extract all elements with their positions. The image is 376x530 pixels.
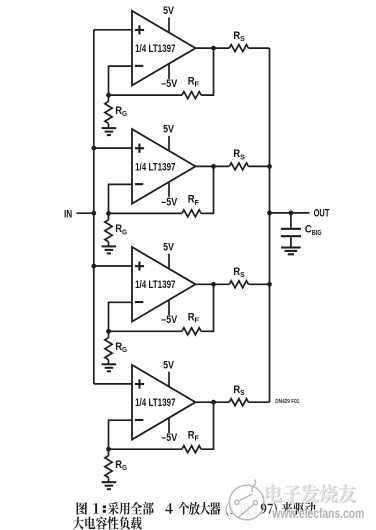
-5V supply pin of U1A bbox=[161, 63, 178, 90]
wire: feedback node up to -input of U1B bbox=[109, 184, 133, 213]
wire: RS2 to output bus bbox=[248, 165, 269, 167]
svg-text:F: F bbox=[195, 434, 200, 443]
ground: C_BIG bbox=[281, 248, 301, 255]
label: figure caption 图1 bbox=[73, 502, 258, 530]
-5V supply pin of U1C bbox=[161, 300, 178, 327]
watermark: 电子发烧友 text bbox=[265, 483, 357, 503]
svg-text:OUT: OUT bbox=[314, 207, 330, 219]
node: U1B output / feedback junction bbox=[211, 164, 216, 169]
5V supply pin of U1B bbox=[163, 124, 174, 152]
svg-text:–5V: –5V bbox=[161, 314, 178, 326]
svg-text:S: S bbox=[240, 270, 245, 279]
node: bus junction at U1B +input bbox=[91, 146, 96, 151]
node: bus junction at RS2 bbox=[267, 164, 272, 169]
svg-text:S: S bbox=[240, 34, 245, 43]
resistor RS3 bbox=[229, 266, 248, 288]
watermark: www.elecfans.com bbox=[271, 505, 365, 521]
op-amp U1C (1/4 LT1397) bbox=[132, 247, 196, 322]
watermark: white fade behind logo bbox=[221, 496, 266, 513]
svg-text:G: G bbox=[122, 227, 127, 236]
-5V supply pin of U1D bbox=[161, 418, 178, 445]
wire: feedback from U1C output down to RF3 bbox=[201, 284, 213, 331]
wire: U1D output to RS4 bbox=[196, 401, 230, 403]
resistor RG3 bbox=[105, 331, 127, 364]
svg-text:F: F bbox=[195, 80, 200, 89]
node: IN junction on input bus bbox=[91, 211, 96, 216]
svg-text:5V: 5V bbox=[163, 359, 174, 371]
svg-text:G: G bbox=[122, 109, 127, 118]
wire: OUT lead bbox=[270, 212, 310, 214]
wire: RF2 to feedback node bbox=[109, 212, 183, 214]
wire: input bus (left vertical) bbox=[93, 30, 95, 384]
svg-text:DN429 F01: DN429 F01 bbox=[275, 399, 299, 405]
svg-text:–5V: –5V bbox=[161, 78, 178, 90]
wire: feedback from U1B output down to RF2 bbox=[201, 166, 213, 213]
wire: feedback node up to -input of U1D bbox=[109, 420, 133, 449]
node: bus junction at U1C +input bbox=[91, 264, 96, 269]
wire: U1A output to RS1 bbox=[196, 47, 230, 49]
node: C_BIG tap junction bbox=[289, 211, 294, 216]
wire: feedback from U1A output down to RF1 bbox=[201, 48, 213, 95]
node: feedback junction of U1D bbox=[106, 447, 111, 452]
wire: left bus to +input of U1A bbox=[94, 29, 132, 31]
resistor RF1 bbox=[182, 75, 201, 98]
svg-text:F: F bbox=[195, 198, 200, 207]
resistor RS4 bbox=[229, 384, 248, 406]
svg-text:G: G bbox=[122, 463, 127, 472]
svg-text:S: S bbox=[240, 152, 245, 161]
5V supply pin of U1C bbox=[163, 241, 174, 269]
wire: left bus to +input of U1B bbox=[94, 147, 132, 149]
resistor RS1 bbox=[229, 30, 248, 52]
svg-text:–5V: –5V bbox=[161, 432, 178, 444]
node: feedback junction of U1B bbox=[106, 211, 111, 216]
node: U1D output / feedback junction bbox=[211, 400, 216, 405]
ground: RG2 bbox=[102, 246, 117, 253]
5V supply pin of U1A bbox=[163, 5, 174, 33]
op-amp U1D (1/4 LT1397) bbox=[132, 365, 196, 440]
svg-text:5V: 5V bbox=[163, 5, 174, 17]
resistor RG1 bbox=[105, 95, 127, 128]
node: bus junction at RS3 bbox=[267, 282, 272, 287]
node: U1A output / feedback junction bbox=[211, 46, 216, 51]
node: U1C output / feedback junction bbox=[211, 282, 216, 287]
svg-text:www.elecfans.com: www.elecfans.com bbox=[272, 506, 365, 521]
svg-text:5V: 5V bbox=[163, 241, 174, 253]
label: figure caption tail 97) 来驱动 bbox=[261, 502, 316, 516]
resistor RF2 bbox=[182, 194, 201, 217]
wire: output bus (right vertical) bbox=[269, 48, 271, 402]
svg-text:G: G bbox=[122, 345, 127, 354]
svg-text:5V: 5V bbox=[163, 124, 174, 136]
svg-text:IN: IN bbox=[64, 208, 72, 220]
watermark: elecfans logo circle bbox=[229, 480, 264, 520]
ground: RG3 bbox=[102, 364, 117, 371]
wire: U1B output to RS2 bbox=[196, 165, 230, 167]
svg-text:F: F bbox=[195, 316, 200, 325]
wire: feedback node up to -input of U1C bbox=[109, 302, 133, 331]
svg-text:BIG: BIG bbox=[312, 228, 322, 237]
-5V supply pin of U1B bbox=[161, 182, 178, 209]
svg-text:–5V: –5V bbox=[161, 196, 178, 208]
node: OUT junction on output bus bbox=[267, 211, 272, 216]
node: feedback junction of U1C bbox=[106, 329, 111, 334]
resistor RF4 bbox=[182, 429, 201, 452]
ground: RG4 bbox=[102, 482, 117, 489]
resistor RG4 bbox=[105, 449, 127, 482]
svg-text:1/4 LT1397: 1/4 LT1397 bbox=[135, 279, 175, 291]
5V supply pin of U1D bbox=[163, 359, 174, 387]
wire: RS3 to output bus bbox=[248, 283, 269, 285]
wire: IN lead bbox=[77, 212, 94, 214]
capacitor C_BIG bbox=[281, 213, 322, 247]
wire: RF4 to feedback node bbox=[109, 448, 183, 450]
svg-text:1/4 LT1397: 1/4 LT1397 bbox=[135, 43, 175, 55]
op-amp U1B (1/4 LT1397) bbox=[132, 129, 196, 204]
wire: feedback from U1D output down to RF4 bbox=[201, 402, 213, 449]
wire: RS1 to output bus bbox=[248, 47, 269, 49]
wire: RS4 to output bus bbox=[248, 401, 269, 403]
svg-text:S: S bbox=[240, 388, 245, 397]
wire: left bus to +input of U1D bbox=[94, 383, 132, 385]
wire: U1C output to RS3 bbox=[196, 283, 230, 285]
svg-text:1/4 LT1397: 1/4 LT1397 bbox=[135, 397, 175, 409]
wire: RF1 to feedback node bbox=[109, 94, 183, 96]
wire: feedback node up to -input of U1A bbox=[109, 66, 133, 95]
resistor RS2 bbox=[229, 148, 248, 170]
node: feedback junction of U1A bbox=[106, 93, 111, 98]
resistor RF3 bbox=[182, 312, 201, 335]
wire: RF3 to feedback node bbox=[109, 330, 183, 332]
op-amp U1A (1/4 LT1397) bbox=[132, 11, 196, 86]
ground: RG1 bbox=[102, 128, 117, 135]
svg-text:1/4 LT1397: 1/4 LT1397 bbox=[135, 161, 175, 173]
resistor RG2 bbox=[105, 213, 127, 246]
wire: left bus to +input of U1C bbox=[94, 265, 132, 267]
